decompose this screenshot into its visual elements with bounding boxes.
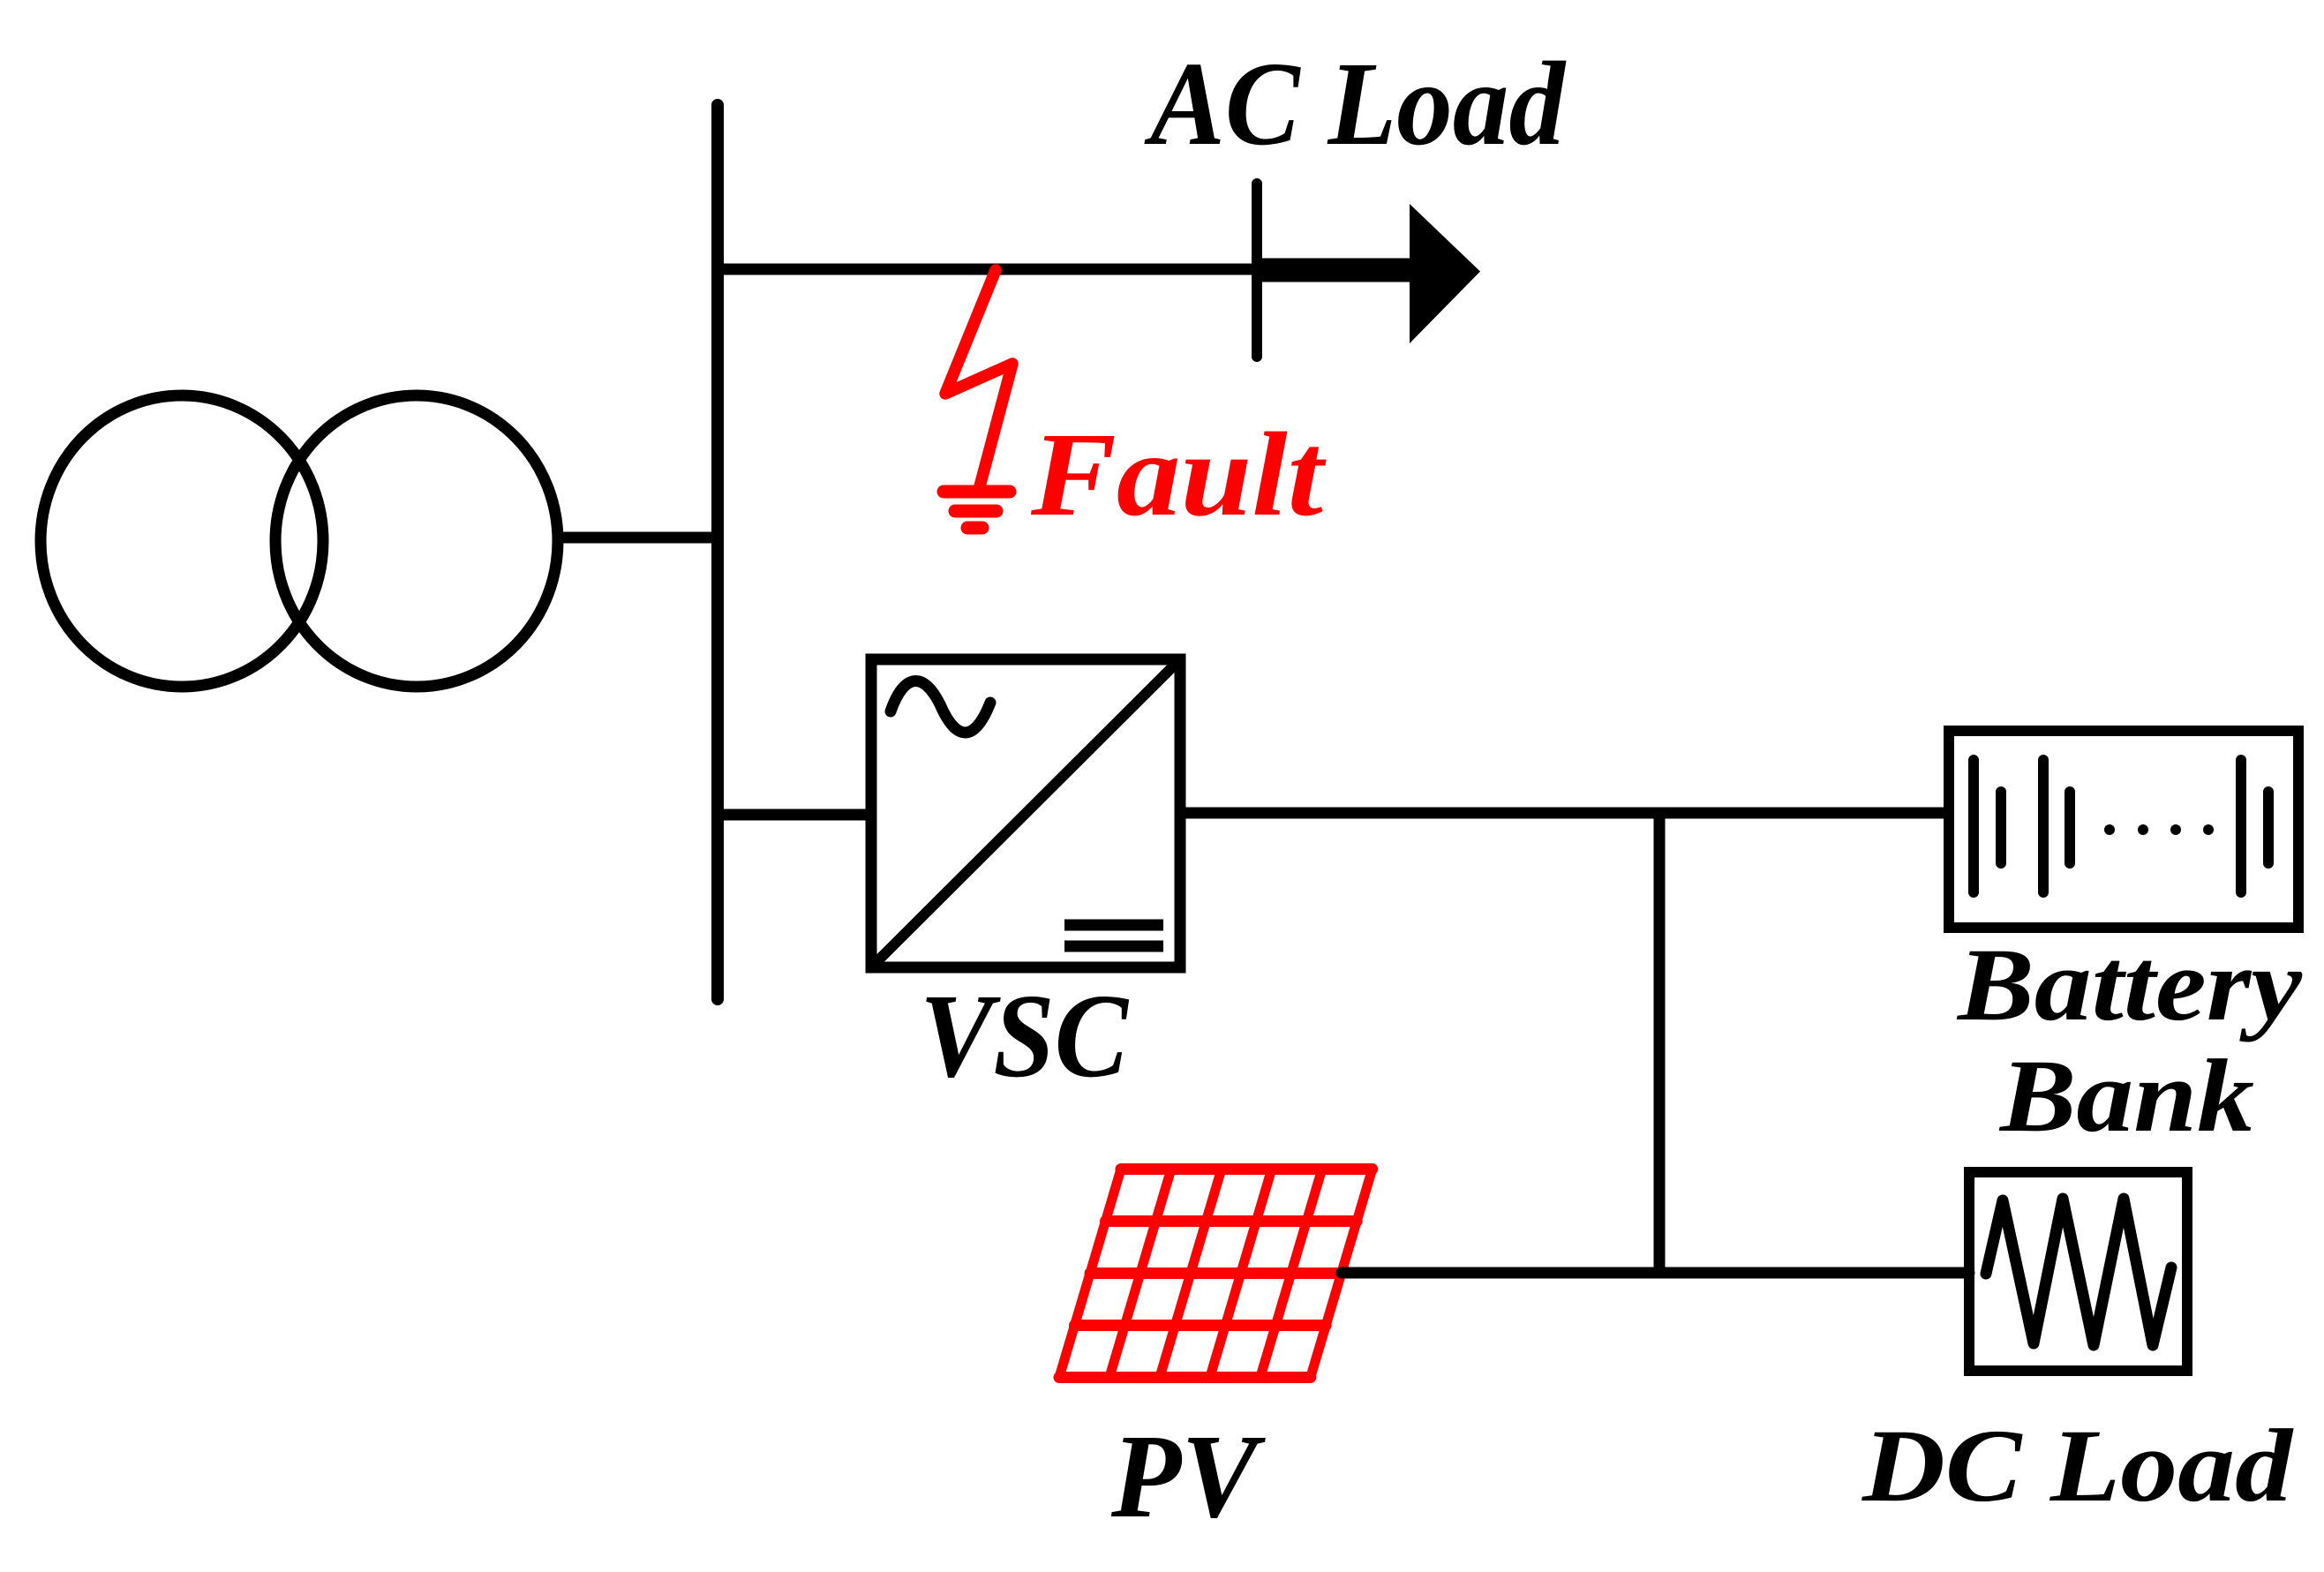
battery bank box <box>1949 731 2298 928</box>
svg-text:AC Load: AC Load <box>1144 38 1567 170</box>
svg-text:Battery: Battery <box>1956 927 2303 1042</box>
AC load arrow shaft <box>1257 259 1410 282</box>
VSC DC symbol line 2 <box>1064 941 1163 952</box>
DC load zigzag <box>1986 1199 2171 1345</box>
svg-text:PV: PV <box>1110 1410 1266 1543</box>
battery cell 1 short plate <box>1996 792 2006 863</box>
AC load arrowhead <box>1410 204 1480 343</box>
transformer T1 <box>41 395 558 687</box>
VSC AC sine symbol <box>891 681 990 733</box>
AC bus bar <box>711 105 724 999</box>
bottom DC wire PV to DC load <box>1342 1267 1969 1279</box>
wire transformer to bus <box>558 532 718 544</box>
fault ground bar 2 <box>955 505 997 518</box>
PV panel grid <box>1059 1170 1373 1378</box>
wire bus to AC load <box>718 264 1257 275</box>
VSC DC symbol line 1 <box>1064 920 1163 931</box>
battery dots <box>2104 824 2214 835</box>
fault ground bar 3 <box>967 522 982 535</box>
svg-text:Bank: Bank <box>1998 1038 2254 1154</box>
svg-text:Fault: Fault <box>1030 409 1327 541</box>
battery cell 2 long plate <box>2038 760 2049 892</box>
battery cell 2 short plate <box>2065 792 2075 863</box>
DC bus wire VSC to battery <box>1180 808 1949 819</box>
fault lightning bolt <box>945 270 1012 486</box>
wire bus to VSC <box>718 809 874 821</box>
AC load tick <box>1252 184 1262 357</box>
DC branch vertical wire <box>1654 813 1666 1273</box>
VSC converter box U1 <box>871 659 1180 967</box>
svg-text:DC Load: DC Load <box>1861 1408 2294 1523</box>
DC load box <box>1969 1172 2187 1371</box>
battery cell 3 long plate <box>2236 760 2246 892</box>
svg-text:VSC: VSC <box>920 970 1129 1102</box>
battery cell 1 long plate <box>1968 760 1979 892</box>
VSC diagonal <box>874 662 1177 965</box>
battery cell 3 short plate <box>2263 792 2274 863</box>
fault ground bar 1 <box>944 485 1010 499</box>
